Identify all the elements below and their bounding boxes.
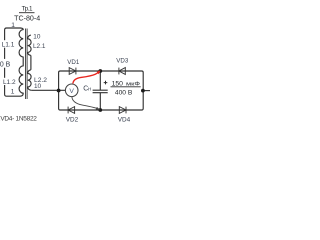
diode VD3 xyxy=(119,68,125,75)
junction node bottom (cap -) xyxy=(98,108,102,112)
svg-text:VD4: VD4 xyxy=(118,117,131,124)
pin labels and winding names xyxy=(0,22,47,95)
svg-text:.VD4- 1N5822: .VD4- 1N5822 xyxy=(0,115,37,122)
winding L1.1 + L1.2 (primary) xyxy=(19,28,23,96)
label backgrounds masking the input wire xyxy=(0,40,15,48)
capacitor Cn plates xyxy=(93,90,108,93)
voltmeter PV1 xyxy=(65,84,78,97)
transformer label underline xyxy=(19,12,35,14)
svg-text:1: 1 xyxy=(11,88,15,95)
diode VD4 xyxy=(119,107,126,114)
winding L2.2 (secondary bottom) xyxy=(28,70,32,91)
transformer core xyxy=(26,29,28,100)
wire: primary input loop (left vertical with leads) xyxy=(5,28,21,96)
svg-text:400 В: 400 В xyxy=(115,89,133,96)
svg-text:Сн: Сн xyxy=(83,85,91,92)
svg-text:VD3: VD3 xyxy=(116,57,129,64)
svg-text:VD1: VD1 xyxy=(67,59,80,66)
svg-text:VD2: VD2 xyxy=(66,117,79,124)
wire: secondary lead to bridge xyxy=(31,89,65,91)
svg-text:L2.1: L2.1 xyxy=(33,43,46,50)
wire: capacitor branch vertical xyxy=(99,71,101,110)
gray annotation arrow (voltmeter - to cap bottom node) xyxy=(72,97,98,109)
junction node top (cap +) xyxy=(98,69,102,73)
svg-text:ТС-80-4: ТС-80-4 xyxy=(14,14,40,22)
wire between L2.1 and L2.2 xyxy=(30,55,32,69)
junction node right (output) xyxy=(141,89,145,93)
diode VD1 xyxy=(69,68,76,75)
junction node left (transformer input) xyxy=(57,89,61,93)
svg-text:0 В: 0 В xyxy=(0,61,11,68)
red annotation arrow (voltmeter + to cap top node) xyxy=(73,71,100,83)
fraction bar of capacitor value xyxy=(111,86,141,88)
wire: bridge rectangle xyxy=(59,71,144,110)
winding L2.1 (secondary top) xyxy=(28,35,31,55)
svg-text:L1.1: L1.1 xyxy=(2,42,15,49)
svg-text:10: 10 xyxy=(34,83,42,90)
svg-text:1: 1 xyxy=(11,22,15,29)
svg-text:L1.2: L1.2 xyxy=(3,79,16,86)
svg-text:Тр.1: Тр.1 xyxy=(22,5,33,12)
svg-text:V: V xyxy=(69,88,74,95)
svg-text:10: 10 xyxy=(33,34,41,41)
capacitor polarity + xyxy=(104,81,108,85)
diode VD2 xyxy=(68,107,75,114)
wire: output lead right xyxy=(143,90,150,92)
